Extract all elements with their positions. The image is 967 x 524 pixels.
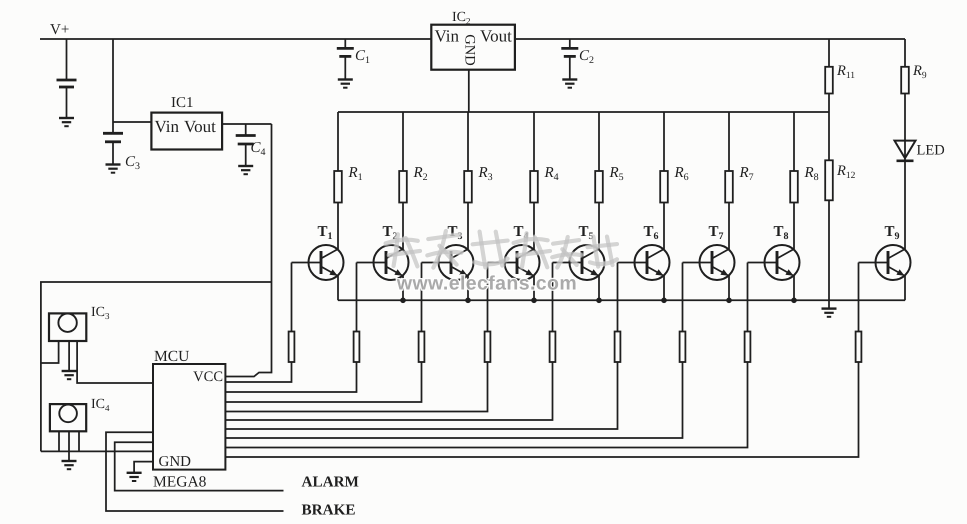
svg-text:T6: T6 — [644, 224, 659, 242]
wire T1 emitter — [337, 276, 339, 301]
junction — [791, 298, 797, 304]
wire T6 base — [618, 262, 648, 264]
svg-text:V+: V+ — [50, 22, 69, 38]
resistor R3 — [464, 171, 472, 203]
wire IC4 ground leg — [68, 431, 70, 461]
wire base resistor to MCU (T7) — [225, 362, 682, 438]
resistor R1 — [334, 171, 342, 203]
svg-text:R6: R6 — [674, 165, 689, 183]
wire base resistor to MCU (T2) — [225, 362, 356, 392]
wire base resistor to MCU (T1) — [225, 362, 291, 382]
transistor T9 — [876, 245, 911, 280]
regulator IC1 — [151, 113, 222, 150]
wire — [569, 56, 571, 79]
wire IC1 Vin — [113, 121, 151, 123]
wire T2 base — [357, 262, 387, 264]
wire R7 to T7 collector — [728, 203, 730, 250]
svg-text:VCC: VCC — [193, 369, 223, 385]
svg-text:Vin: Vin — [435, 27, 460, 46]
wire T9 emitter — [904, 276, 906, 301]
junction — [596, 298, 602, 304]
transistor T1 — [309, 245, 344, 280]
sensor IC4 — [50, 404, 86, 431]
base resistor (T4) — [485, 332, 491, 363]
ground — [822, 309, 837, 317]
svg-text:BRAKE: BRAKE — [302, 502, 356, 519]
ground — [59, 118, 74, 126]
svg-text:R1: R1 — [348, 165, 363, 183]
svg-text:C4: C4 — [251, 140, 266, 158]
wire T8 base — [748, 262, 778, 264]
wire base resistor to MCU (T3) — [225, 362, 421, 402]
ground — [62, 371, 77, 379]
wire T7 emitter — [728, 276, 730, 301]
wire ALARM — [115, 442, 284, 490]
junction — [465, 298, 471, 304]
svg-text:GND: GND — [159, 454, 192, 470]
svg-text:IC2: IC2 — [452, 10, 471, 26]
svg-text:C3: C3 — [125, 154, 140, 172]
wire IC3 ground leg — [68, 341, 70, 371]
wire BRAKE — [106, 432, 284, 511]
svg-text:T7: T7 — [709, 224, 724, 242]
ground — [238, 166, 253, 174]
resistor R9 — [901, 67, 909, 94]
wire T9 base — [859, 262, 889, 264]
wire bus to R2 — [402, 112, 404, 171]
base resistor (T6) — [615, 332, 621, 363]
wire T1 base down — [291, 263, 293, 332]
wire R12 to ground — [828, 200, 830, 308]
transistor T3 — [439, 245, 474, 280]
wire T3 base down — [421, 263, 423, 332]
capacitor C2 — [561, 39, 578, 56]
wire T4 emitter — [533, 276, 535, 301]
wire bus to R6 — [663, 112, 665, 171]
watermark (decorative) — [385, 230, 618, 294]
svg-text:MEGA8: MEGA8 — [153, 474, 207, 491]
ground — [106, 165, 121, 173]
diode LED — [895, 141, 916, 161]
wire T5 base — [553, 262, 583, 264]
wire — [344, 56, 346, 79]
svg-text:Vout: Vout — [184, 117, 216, 136]
wire bus to R8 — [793, 112, 795, 171]
resistor R11 — [825, 67, 833, 94]
resistor R4 — [530, 171, 538, 203]
transistor T7 — [700, 245, 735, 280]
wire IC2 GND to bus — [468, 70, 470, 112]
svg-text:R12: R12 — [836, 163, 856, 181]
transistor T2 — [374, 245, 409, 280]
ground — [562, 80, 577, 88]
wire V+ top rail (left segment) — [40, 38, 431, 40]
wire VCC (IC1 Vout to MCU VCC) — [225, 124, 271, 377]
svg-text:R7: R7 — [739, 165, 754, 183]
ground — [62, 461, 77, 469]
wire base resistor to MCU (T4) — [225, 362, 487, 412]
wire bus to R5 — [598, 112, 600, 171]
svg-text:R9: R9 — [912, 63, 927, 81]
wire R1 to T1 collector — [337, 203, 339, 250]
capacitor C4 — [236, 124, 256, 166]
svg-text:IC4: IC4 — [91, 397, 110, 413]
resistor R8 — [790, 171, 798, 203]
svg-text:IC1: IC1 — [171, 95, 194, 111]
svg-text:T1: T1 — [318, 224, 333, 242]
wire R3 to T3 collector — [467, 203, 469, 250]
base resistor (T9) — [856, 332, 862, 363]
wire T9 base down — [858, 263, 860, 332]
svg-text:Vin: Vin — [155, 117, 180, 136]
svg-text:R4: R4 — [544, 165, 559, 183]
wire bus to R4 — [533, 112, 535, 171]
wire rail to R11 — [828, 39, 830, 67]
junction — [400, 298, 406, 304]
sensor IC3 — [49, 313, 86, 341]
svg-text:R5: R5 — [609, 165, 624, 183]
base resistor (T2) — [354, 332, 360, 363]
ground — [338, 80, 353, 88]
wire base resistor to MCU (T5) — [225, 362, 552, 420]
capacitor C1 — [337, 39, 354, 56]
MCU U1 (MEGA8) — [153, 364, 225, 470]
wire T7 base down — [682, 263, 684, 332]
wire T3 emitter — [467, 276, 469, 301]
wire R5 to T5 collector — [598, 203, 600, 250]
wire T4 base down — [487, 263, 489, 332]
svg-text:R11: R11 — [836, 63, 855, 81]
svg-text:IC3: IC3 — [91, 305, 110, 321]
wire bus to R7 — [728, 112, 730, 171]
wire T4 base — [488, 262, 518, 264]
junction — [531, 298, 537, 304]
wire R4 to T4 collector — [533, 203, 535, 250]
svg-text:T8: T8 — [774, 224, 789, 242]
wire bus to R1 — [337, 112, 339, 171]
wire T8 base down — [747, 263, 749, 332]
wire V+ top rail (right segment) — [515, 38, 905, 40]
junction — [661, 298, 667, 304]
svg-text:C2: C2 — [579, 48, 594, 66]
wire T2 emitter — [402, 276, 404, 301]
wire R8 to T8 collector — [793, 203, 795, 250]
base resistor (T1) — [289, 332, 295, 363]
wire T5 base down — [552, 263, 554, 332]
wire base resistor to MCU (T8) — [225, 362, 747, 448]
base resistor (T3) — [419, 332, 425, 363]
svg-text:www.elecfans.com: www.elecfans.com — [396, 273, 577, 295]
svg-text:C1: C1 — [355, 48, 370, 66]
wire (supply branch to IC3/IC4) — [41, 282, 272, 451]
wire T7 base — [683, 262, 713, 264]
svg-text:R3: R3 — [478, 165, 493, 183]
capacitor (input filter, unlabeled) — [57, 39, 77, 87]
svg-text:ALARM: ALARM — [302, 474, 359, 491]
wire — [66, 87, 68, 118]
svg-text:R8: R8 — [804, 165, 819, 183]
wire T6 base down — [617, 263, 619, 332]
resistor R7 — [725, 171, 733, 203]
junction — [726, 298, 732, 304]
resistor R2 — [399, 171, 407, 203]
wire R2 to T2 collector — [402, 203, 404, 250]
wire T8 emitter — [793, 276, 795, 301]
wire T3 base — [422, 262, 452, 264]
wire rail corner to R9 — [904, 39, 906, 67]
base resistor (T5) — [550, 332, 556, 363]
wire IC4 legs / output to MCU — [41, 431, 153, 451]
svg-text:T9: T9 — [885, 224, 900, 242]
resistor R6 — [660, 171, 668, 203]
transistor T8 — [765, 245, 800, 280]
resistor R5 — [595, 171, 603, 203]
wire bus to R3 — [467, 112, 469, 171]
wire R6 to T6 collector — [663, 203, 665, 250]
ground — [127, 473, 142, 481]
base resistor (T8) — [745, 332, 751, 363]
svg-text:GND: GND — [462, 34, 478, 65]
wire LED to T9 collector — [904, 161, 906, 249]
wire T1 base — [292, 262, 322, 264]
regulator IC2 — [431, 25, 515, 70]
capacitor C3 — [103, 133, 123, 164]
transistor T4 — [505, 245, 540, 280]
wire R11 to R12 — [828, 94, 830, 161]
svg-text:MCU: MCU — [154, 348, 189, 365]
wire emitter/ground bus — [338, 299, 905, 301]
wire base resistor to MCU (T9) — [225, 362, 858, 457]
resistor R12 — [825, 160, 833, 200]
wire T6 emitter — [663, 276, 665, 301]
wire IC3 supply leg — [41, 341, 59, 363]
base resistor (T7) — [680, 332, 686, 363]
wire IC1 Vout — [222, 123, 271, 125]
wire base resistor to MCU (T6) — [225, 362, 617, 429]
svg-text:R2: R2 — [413, 165, 428, 183]
wire 5V bus — [338, 111, 829, 113]
svg-text:Vout: Vout — [480, 27, 512, 46]
wire MCU GND — [134, 462, 153, 473]
transistor T5 — [570, 245, 605, 280]
wire T5 emitter — [598, 276, 600, 301]
svg-text:LED: LED — [917, 143, 945, 159]
wire (rail to C3 / IC1 Vin) — [112, 39, 114, 133]
transistor T6 — [635, 245, 670, 280]
wire IC3 output to MCU — [77, 341, 153, 383]
wire T2 base down — [356, 263, 358, 332]
wire R9 to LED — [904, 94, 906, 141]
